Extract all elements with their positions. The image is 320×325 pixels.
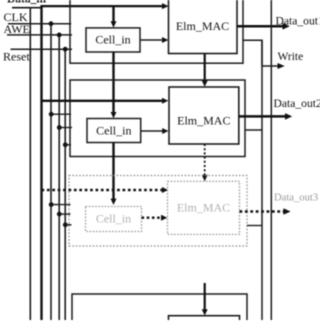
junction CLK row3 <box>49 202 54 207</box>
wire Data_in vertical bus <box>40 5 42 320</box>
wire row1 Elm_MAC chain down <box>204 54 206 82</box>
wire Data_in horizontal to row1 Elm_MAC <box>41 5 163 7</box>
wire CLK horizontal <box>8 23 71 25</box>
block row2 outer rectangle <box>70 80 245 157</box>
svg-text:Data_out3: Data_out3 <box>274 192 318 203</box>
junction Reset row3 <box>63 222 68 227</box>
wire row3 tap to Write bus <box>247 225 262 227</box>
junction Reset row1 <box>63 47 68 52</box>
svg-text:Data_out2: Data_out2 <box>274 97 320 110</box>
wire Data_out2 <box>239 115 286 118</box>
wire Data_in tap row3 dotted <box>42 189 163 192</box>
svg-text:Reset: Reset <box>3 50 30 64</box>
junction AWE row2 <box>57 125 62 130</box>
wire CLK stub row3 <box>51 204 70 206</box>
svg-text:AWE: AWE <box>4 22 30 36</box>
block row3 Elm_MAC ghost box <box>168 181 240 234</box>
wire row3 Cell_in to Elm_MAC dotted <box>142 216 163 218</box>
wire Data_out1 <box>237 25 284 28</box>
block row4 outer rectangle <box>72 294 247 325</box>
junction CLK row2 <box>49 112 54 117</box>
wire AWE stub row2 <box>59 127 72 129</box>
wire right vertical bus <box>270 0 272 320</box>
block row4 Elm_MAC box <box>169 316 240 325</box>
wire row2 Elm_MAC chain down dotted <box>204 144 206 176</box>
block row1 Elm_MAC box <box>169 0 238 54</box>
junction CLK row1 <box>49 21 54 26</box>
wire row1 Cell_in chain down <box>112 52 114 113</box>
block row1 outer rectangle <box>70 0 243 63</box>
wire row2 Cell_in chain down <box>112 143 114 200</box>
wire Write tap from row1 <box>243 40 262 66</box>
svg-text:Elm_MAC: Elm_MAC <box>177 113 230 127</box>
svg-text:Cell_in: Cell_in <box>95 33 130 47</box>
block row2 Cell_in box <box>87 119 141 143</box>
svg-text:Elm_MAC: Elm_MAC <box>177 201 230 215</box>
block row1 Cell_in box <box>86 28 140 52</box>
wire row1 Cell_in to Elm_MAC <box>140 39 163 41</box>
junction AWE row3 <box>57 212 62 217</box>
wire Write vertical bus <box>261 40 263 320</box>
block row2 Elm_MAC box <box>169 87 239 144</box>
svg-text:Write: Write <box>278 51 304 63</box>
svg-text:Cell_in: Cell_in <box>96 123 131 137</box>
svg-text:Elm_MAC: Elm_MAC <box>176 19 229 33</box>
wire AWE stub row3 <box>59 213 70 215</box>
wire AWE vertical bus <box>58 35 60 320</box>
svg-text:Data_in: Data_in <box>7 0 47 5</box>
block row3 dashed rectangle <box>69 176 247 247</box>
junction AWE row1 <box>57 33 62 38</box>
junction Reset row2 <box>63 142 68 147</box>
wire Reset horizontal <box>11 48 73 50</box>
wire row2 tap to Write bus <box>245 129 262 131</box>
wire Reset vertical bus <box>64 49 66 320</box>
wire Reset stub row3 <box>65 224 71 226</box>
wire Write arrow <box>262 65 279 67</box>
wire Data_in label underline segment <box>12 7 43 9</box>
wire AWE horizontal <box>7 34 72 36</box>
wire row2 Cell_in to Elm_MAC <box>141 130 163 132</box>
block row3 Cell_in ghost box <box>86 207 142 232</box>
svg-text:Cell_in: Cell_in <box>96 211 131 225</box>
wire Data_in tap row2 <box>42 100 163 102</box>
wire Data_out3 dotted <box>240 210 285 213</box>
wire row4 Elm_MAC chain <box>204 283 206 310</box>
wire CLK vertical bus <box>50 24 52 320</box>
wire Data_in drop into row1 Cell_in <box>112 6 114 22</box>
svg-text:Data_out1: Data_out1 <box>276 14 320 27</box>
wire left spare vertical bus <box>29 7 31 320</box>
wire Reset stub row2 <box>65 144 71 146</box>
wire CLK stub row2 <box>51 113 71 115</box>
